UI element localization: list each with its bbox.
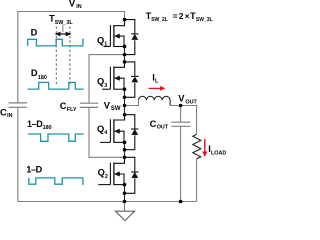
wire ground rail xyxy=(18,201,197,203)
wire main stack segment V_SW xyxy=(124,89,126,120)
T_SW_3L label xyxy=(49,14,73,26)
transistor Q1 xyxy=(103,20,124,47)
svg-text:Q: Q xyxy=(97,35,104,45)
I_LOAD label xyxy=(208,144,226,156)
dashed marker lines xyxy=(56,27,70,86)
svg-text:C: C xyxy=(150,119,157,129)
svg-text:180: 180 xyxy=(38,75,47,81)
svg-text:1: 1 xyxy=(104,42,107,48)
junction V_IN at Q1 drain xyxy=(123,18,127,22)
wire V_SW to inductor xyxy=(125,100,139,105)
waveform 1-D trace xyxy=(29,178,84,184)
diode D1 body of Q1 xyxy=(125,20,139,55)
svg-text:180: 180 xyxy=(43,125,52,131)
junction Q3 source xyxy=(123,87,127,91)
svg-text:3: 3 xyxy=(104,83,107,89)
wire V_OUT rail xyxy=(170,106,197,135)
svg-text:V: V xyxy=(178,94,185,104)
junction Q3 diode bottom xyxy=(123,96,127,100)
capacitor C_FLY xyxy=(80,103,98,107)
diode D4 body of Q4 xyxy=(125,115,139,150)
equation T_SW_2L = 2 x T_SW_3L xyxy=(146,11,213,23)
wire C_FLY branch xyxy=(89,55,125,158)
Q2 label xyxy=(98,168,108,180)
junction Q4 source xyxy=(123,141,127,145)
transistor Q3 xyxy=(102,62,125,90)
junction Q2 diode bottom xyxy=(123,192,127,196)
junction node V_SW xyxy=(123,104,127,108)
svg-text:LOAD: LOAD xyxy=(211,151,226,157)
waveform 1-D_180 trace xyxy=(28,134,84,141)
junction node B / C_FLY bottom xyxy=(123,156,127,160)
junction node V_OUT xyxy=(179,104,183,108)
transistor Q4 xyxy=(100,115,125,143)
svg-text:SW: SW xyxy=(111,106,121,112)
waveform D_180 trace xyxy=(28,82,84,89)
svg-text:=: = xyxy=(173,12,178,21)
node V_SW label xyxy=(104,100,121,112)
waveform D_180 label xyxy=(31,68,47,81)
wire load bottom lead xyxy=(196,159,198,202)
svg-text:OUT: OUT xyxy=(185,99,197,105)
svg-text:Q: Q xyxy=(98,168,105,178)
svg-text:SW_3L: SW_3L xyxy=(55,20,74,26)
svg-text:1–D: 1–D xyxy=(26,164,42,174)
wire main stack segment ground leg xyxy=(124,185,126,202)
svg-text:4: 4 xyxy=(104,130,107,136)
svg-text:IN: IN xyxy=(7,113,12,119)
svg-text:C: C xyxy=(60,101,67,111)
C_FLY label xyxy=(60,101,77,113)
junction Q1 source xyxy=(123,45,127,49)
junction ground rail xyxy=(123,200,127,204)
junction Q4 diode top xyxy=(123,113,127,117)
svg-text:OUT: OUT xyxy=(157,125,169,131)
svg-text:2: 2 xyxy=(105,174,108,180)
ground xyxy=(115,202,134,221)
svg-text:C: C xyxy=(0,107,7,117)
svg-text:D: D xyxy=(31,28,38,38)
svg-text:D: D xyxy=(31,68,38,78)
diode D2 body of Q2 xyxy=(125,157,139,193)
junction node A / C_FLY top xyxy=(123,53,127,57)
svg-text:SW_3L: SW_3L xyxy=(196,17,213,23)
arrow T_SW_3L double head xyxy=(55,32,72,37)
arrow I_L red xyxy=(149,86,166,91)
svg-text:FLY: FLY xyxy=(67,107,77,113)
Q1 label xyxy=(97,35,107,47)
leader line under label xyxy=(62,25,64,32)
svg-text:IN: IN xyxy=(76,4,81,10)
svg-text:V: V xyxy=(69,0,76,8)
capacitor C_OUT xyxy=(171,106,190,202)
C_OUT label xyxy=(150,119,169,131)
svg-text:SW_2L: SW_2L xyxy=(151,17,168,23)
waveform D trace xyxy=(28,39,84,46)
junction Q3 diode top xyxy=(123,60,127,64)
junction Q4 diode bottom xyxy=(123,148,127,152)
capacitor C_IN xyxy=(9,103,27,202)
junction Q2 source xyxy=(123,183,127,187)
Q3 label xyxy=(97,77,107,89)
transistor Q2 xyxy=(98,157,124,185)
node V_OUT label xyxy=(178,94,197,106)
wire main stack segment node B xyxy=(124,142,126,163)
resistor LOAD xyxy=(193,134,201,159)
waveform 1-D_180 label xyxy=(27,119,52,131)
I_L label xyxy=(152,73,159,85)
Q4 label xyxy=(97,124,107,136)
svg-text:×: × xyxy=(185,12,190,21)
svg-text:2: 2 xyxy=(179,12,184,21)
arrow I_LOAD red xyxy=(202,139,207,157)
diode D3 body of Q3 xyxy=(125,62,139,97)
svg-text:V: V xyxy=(104,100,111,110)
wire main stack segment node A xyxy=(124,47,126,68)
junction C_OUT ground xyxy=(179,200,183,204)
inductor L xyxy=(139,96,171,105)
node V_IN label xyxy=(69,0,82,10)
svg-text:1–D: 1–D xyxy=(27,119,43,129)
svg-text:Q: Q xyxy=(97,77,104,87)
C_IN label xyxy=(0,107,13,119)
svg-text:Q: Q xyxy=(97,124,104,134)
wire V_IN top rail xyxy=(18,12,125,103)
